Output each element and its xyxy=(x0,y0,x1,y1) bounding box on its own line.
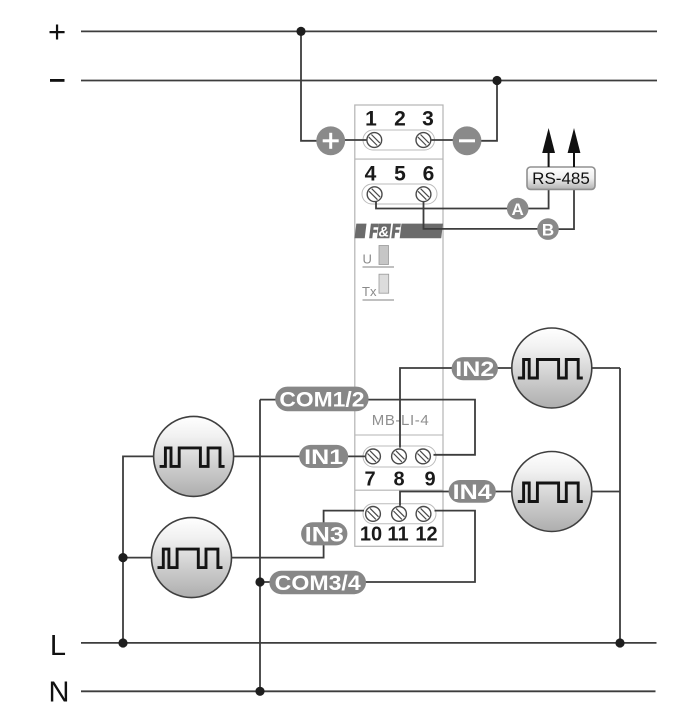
junction left drop on L rail xyxy=(118,638,127,647)
wire screw 4 to node A xyxy=(376,199,518,209)
wire plus rail xyxy=(81,30,657,32)
terminal stadium 7-9 xyxy=(363,446,436,467)
junction S2 on left drop xyxy=(118,553,127,562)
label minus supply xyxy=(50,79,65,82)
svg-text:7: 7 xyxy=(364,469,375,491)
terminal screw 3 xyxy=(416,133,431,148)
wire minus rail xyxy=(81,80,657,82)
pulse source S4 xyxy=(512,452,592,532)
svg-text:IN2: IN2 xyxy=(455,358,494,381)
svg-text:L: L xyxy=(50,630,66,662)
junction COM drop on N rail xyxy=(255,687,264,696)
terminal screw 12 xyxy=(416,507,431,522)
badge IN2 xyxy=(452,357,498,381)
badge IN4 xyxy=(449,480,496,504)
terminal screw 11 xyxy=(392,507,407,522)
pulse source S1 xyxy=(154,416,234,496)
svg-text:2: 2 xyxy=(394,108,406,131)
svg-text:U: U xyxy=(363,252,372,267)
wire node B to RS-485 xyxy=(559,189,575,229)
module MB-LI-4 body xyxy=(355,105,443,546)
svg-text:11: 11 xyxy=(387,524,408,546)
wire screw 10 to IN3 xyxy=(231,511,365,558)
svg-text:1: 1 xyxy=(365,108,377,131)
wire screw 3 to minus terminal xyxy=(423,139,467,141)
wire N rail xyxy=(81,690,656,692)
plus terminal circle xyxy=(316,126,345,155)
terminal stadium 1-3 xyxy=(363,130,435,150)
wire COM3/4 to screw 12 xyxy=(260,511,475,582)
RS-485 arrow A xyxy=(542,128,555,167)
terminal screw 8 xyxy=(392,449,407,464)
junction on plus rail xyxy=(296,27,305,36)
node B circle xyxy=(537,218,559,240)
svg-text:12: 12 xyxy=(415,524,437,546)
svg-text:10: 10 xyxy=(360,524,382,546)
wire COM1/2 to screw 9 xyxy=(260,400,475,455)
wire IN2 to screw 8 xyxy=(400,368,512,448)
terminal screw 1 xyxy=(367,133,382,148)
wire pulse source S3 to right drop xyxy=(591,367,620,369)
wire plus drop to plus terminal xyxy=(301,31,331,140)
wire plus terminal to screw 1 xyxy=(331,139,374,141)
pulse source S3 xyxy=(512,328,592,408)
junction on minus rail xyxy=(492,76,501,85)
terminal screw 7 xyxy=(366,449,381,464)
svg-text:9: 9 xyxy=(424,469,435,491)
terminal stadium 4-6 xyxy=(362,184,437,204)
svg-text:A: A xyxy=(512,200,524,219)
svg-text:4: 4 xyxy=(365,163,377,186)
F&F logo band xyxy=(354,224,443,241)
terminal screw 9 xyxy=(416,449,431,464)
node A circle xyxy=(507,198,529,220)
terminal stadium 10-12 xyxy=(363,504,436,524)
LED U xyxy=(363,246,395,268)
RS-485 box xyxy=(527,167,595,189)
svg-text:IN1: IN1 xyxy=(304,446,343,469)
wire pulse source S2 stub xyxy=(123,557,153,559)
svg-text:6: 6 xyxy=(423,163,435,186)
terminal screw 4 xyxy=(367,187,382,202)
RS-485 arrow B xyxy=(568,128,581,167)
svg-text:5: 5 xyxy=(394,163,406,186)
terminal screw 6 xyxy=(416,187,431,202)
wire COM drop to N rail xyxy=(259,400,261,692)
terminal screw 10 xyxy=(366,507,381,522)
pulse source S2 xyxy=(152,518,232,598)
LED Tx xyxy=(362,274,394,300)
wire pulse source S1 to IN1 xyxy=(233,455,366,457)
svg-text:COM3/4: COM3/4 xyxy=(275,572,361,595)
badge COM1/2 xyxy=(275,387,368,412)
svg-text:IN4: IN4 xyxy=(453,481,492,504)
wire right drop to L rail xyxy=(619,368,621,643)
svg-text:+: + xyxy=(48,14,66,49)
wire IN4 to screw 11 xyxy=(400,492,512,506)
svg-text:B: B xyxy=(542,220,554,239)
wire minus drop to minus terminal xyxy=(467,81,497,141)
badge IN1 xyxy=(299,445,348,469)
svg-text:IN3: IN3 xyxy=(305,524,344,547)
svg-text:COM1/2: COM1/2 xyxy=(279,389,364,412)
junction right drop on L rail xyxy=(615,638,624,647)
svg-text:N: N xyxy=(49,677,70,709)
wire pulse source S4 stub xyxy=(591,491,620,493)
wire left drop to L rail xyxy=(123,456,154,643)
badge COM3/4 xyxy=(269,571,366,595)
wire screw 6 to node B xyxy=(424,199,549,229)
svg-text:Tx: Tx xyxy=(362,284,377,299)
badge IN3 xyxy=(301,522,347,546)
wire node A to RS-485 xyxy=(528,189,549,209)
wire L rail xyxy=(81,642,657,644)
junction COM3/4 tap xyxy=(255,577,264,586)
minus terminal circle xyxy=(453,126,482,155)
svg-text:RS-485: RS-485 xyxy=(532,169,590,188)
svg-text:3: 3 xyxy=(422,108,434,131)
svg-text:8: 8 xyxy=(393,469,404,491)
